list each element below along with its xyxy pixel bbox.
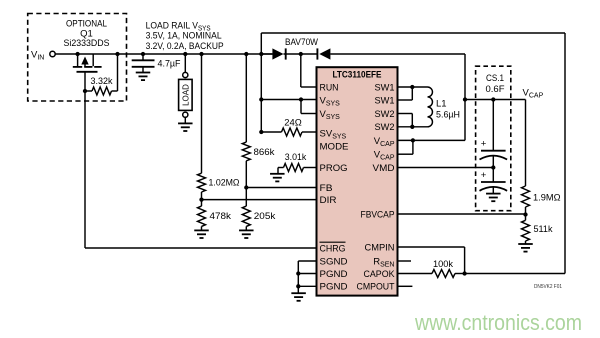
label DN5VK2 F01 [534,284,562,290]
wire CMPOUT stub [398,285,413,287]
pin SW1-2 [375,95,395,106]
pin PGND-2 [320,282,348,293]
node Q1 source junction [75,52,79,56]
label Si2333DDS [64,38,110,49]
pin VMD [373,163,395,174]
wire VSYS to D1 anode [261,53,272,55]
svg-text:866k: 866k [254,147,275,158]
label 3.2V 0.2A BACKUP [146,41,224,52]
svg-text:+: + [481,139,487,150]
capacitor CS.1 upper cell [480,100,508,168]
pin PGND-1 [320,269,348,280]
svg-text:CS.1: CS.1 [486,73,504,84]
capacitor C 4.7uF [132,54,181,73]
svg-text:BAV70W: BAV70W [285,37,318,48]
wire VCAP-2 bridge [398,140,413,154]
wire VSYS down to 1.02M [201,54,203,173]
svg-text:5.6µH: 5.6µH [436,110,460,121]
node SW1 junction [410,85,414,89]
ground (CS.1) [486,194,501,202]
wire VSYS column down [260,54,262,132]
node PGND1 junction [296,271,300,275]
node FBVCAP junction [523,212,527,216]
ground (LOAD) [178,123,193,131]
pin MODE [320,141,349,152]
svg-text:VMD: VMD [373,163,395,174]
svg-text:3.2V, 0.2A, BACKUP: 3.2V, 0.2A, BACKUP [146,41,224,52]
ground (4.7uF) [136,73,151,81]
resistor R 866k [242,142,274,161]
node 866k column junction [244,52,248,56]
wire right-side drop [564,33,566,274]
svg-text:PGND: PGND [320,269,348,280]
pin CMPOUT [357,282,395,293]
ground (PGND/SGND) [291,293,306,301]
svg-text:0.6F: 0.6F [486,84,505,95]
pin VCAP-1 [374,136,395,148]
svg-text:FBVCAP: FBVCAP [361,209,395,220]
svg-text:CMPIN: CMPIN [365,242,395,253]
svg-text:100k: 100k [433,259,453,270]
svg-text:205k: 205k [254,211,276,222]
pin FBVCAP [361,209,395,220]
watermark www.cntronics.com [414,310,582,335]
wire RUN drop [301,54,317,87]
label 0.6F [486,84,505,95]
inductor L1 5.6uH [428,87,461,127]
node VIN input terminal [31,50,55,62]
wire SW1-2 bridge [398,87,413,100]
pin SW2-1 [375,109,395,120]
node 1.02M column junction [199,52,203,56]
svg-text:1.9MΩ: 1.9MΩ [533,193,561,204]
wire SW2-1 bridge [398,114,413,127]
wire riser to top rail [260,33,262,54]
pin VSYS-2 [320,109,341,121]
wire DIR line [202,199,317,201]
svg-text:+: + [481,170,487,181]
wire PGND bracket [297,261,299,286]
wire top rail [261,32,565,34]
svg-text:Si2333DDS: Si2333DDS [64,38,110,49]
svg-text:24Ω: 24Ω [284,118,302,129]
transistor Q1 Si2333DDS (P-MOSFET) [73,54,102,91]
svg-text:SGND: SGND [320,256,348,267]
svg-text:www.cntronics.com: www.cntronics.com [414,310,582,335]
resistor R 100k [398,259,465,278]
node SW2 junction [410,125,414,129]
wire VCAP down to 1.9M [525,100,527,187]
wire VSYS rail [118,53,273,55]
label 3.5V 1A NOMINAL [146,31,222,42]
svg-text:MODE: MODE [320,141,349,152]
pin SW2-2 [375,122,395,133]
wire Q1 gate to CHRG [85,91,317,248]
wire 100k node to right drop [465,273,565,275]
wire PGND2 [298,285,316,287]
resistor R 3.01k [278,152,317,172]
label LTC3110EFE [333,70,382,81]
diode D1 (BAV70W left) [272,48,285,59]
wire to VSYS pin 1 [261,99,316,101]
pin CMPIN [365,242,395,253]
svg-text:PROG: PROG [320,163,348,174]
wire PGND1 [298,273,316,275]
node VSYS/rail junction [259,52,263,56]
pin SVSYS [320,128,347,140]
resistor R 1.9Mohm [522,186,561,207]
resistor R 24ohm [261,118,316,136]
ground (511k) [518,244,533,252]
resistor R 205k [242,206,275,226]
pin CHRG [320,242,346,254]
svg-text:SW2: SW2 [375,109,395,120]
node Q1 gate junction [83,89,87,93]
node VSYS pins bridge [299,97,303,101]
svg-text:CAPOK: CAPOK [364,269,396,280]
svg-text:SW1: SW1 [375,82,395,93]
wire 1.9M to FBVCAP node [525,207,527,215]
node PGND2 junction [296,284,300,288]
wire VSYS down to 866k [245,54,247,142]
wire FB line [246,187,316,189]
pin CAPOK [364,269,396,280]
node 24ohm tap [259,130,263,134]
node Q1 drain junction [115,52,119,56]
svg-text:DIR: DIR [320,195,337,206]
resistor R 478k [198,206,232,226]
label VCAP [523,88,544,100]
svg-text:3.32k: 3.32k [91,76,113,87]
wire RSEN stub [398,260,412,262]
capacitor CS.1 lower cell [480,168,508,194]
pin RUN [320,82,339,93]
wire 3.01k to ground [277,168,279,174]
load block LOAD [179,54,193,123]
wire 511k to ground [525,241,527,244]
pin RSEN [373,256,394,268]
label LOAD RAIL VSYS [146,20,211,32]
ground (PROG) [270,174,285,182]
resistor R 1.02Mohm [198,173,240,192]
svg-text:LTC3110EFE: LTC3110EFE [333,70,382,81]
pin PROG [320,163,348,174]
ground (478k) [194,230,209,238]
wire 205k to ground [245,226,247,230]
ground (205k) [239,230,254,238]
wire PGND to ground [297,286,299,293]
svg-text:CHRG: CHRG [320,243,346,254]
pin VSYS-1 [320,95,341,107]
optional box (dashed) around Q1 [28,14,127,102]
wire VIN to Q1 source/drain rail [55,53,117,55]
wire VCAP-1 to column [398,139,466,141]
wire CMPIN [398,247,465,274]
wire FBVCAP line [398,213,526,215]
pin FB [320,183,333,194]
wire 1.02M to DIR node [201,192,203,200]
svg-text:1.02MΩ: 1.02MΩ [209,178,240,189]
wire 478k to ground [201,226,203,230]
wire D2 anode to VCAP column [330,53,465,55]
node FB junction [244,185,248,189]
svg-text:CMPOUT: CMPOUT [357,282,395,293]
svg-text:FB: FB [320,183,333,194]
capacitor CS.1 box (dashed) [476,66,511,211]
svg-text:511k: 511k [534,224,553,235]
node RUN tap (diode center) [299,52,303,56]
svg-text:SW2: SW2 [375,122,395,133]
wire VMD to supercap mid [398,167,494,169]
node VCAP node [463,97,467,101]
svg-text:SW1: SW1 [375,95,395,106]
wire VSYS pins bridge [301,100,317,114]
node supercap tap [491,97,495,101]
svg-text:478k: 478k [210,211,232,222]
wire VCAP node line [465,99,526,101]
node LOAD junction [183,52,187,56]
diode D2 (BAV70W right) [317,48,330,59]
svg-text:RUN: RUN [320,82,339,93]
pin DIR [320,195,337,206]
pin SW1-1 [375,82,395,93]
node VCAP pins junction [411,138,415,142]
pin SGND [320,256,348,267]
svg-text:3.01k: 3.01k [285,152,307,163]
label Q1 [80,29,93,40]
resistor R 511k [522,215,553,242]
node VSYS pin tap [259,97,263,101]
wire common cathode [284,53,318,55]
svg-text:LOAD: LOAD [181,84,190,106]
wire SGND [298,260,316,262]
label CS.1 [486,73,504,84]
wire SW2-2 to L1 bottom [398,126,428,128]
op-amp U1 LTC3110EFE body [317,67,398,295]
wire DIR node to 478k [201,200,203,207]
pin VCAP-2 [374,150,395,162]
wire 866k to FB node [245,161,247,188]
node 100k junction [462,271,466,275]
svg-text:PGND: PGND [320,282,348,293]
wire VCAP column up [464,54,466,140]
resistor R 3.32k (gate-drain) [85,54,118,95]
label OPTIONAL [66,19,107,30]
wire SW1-1 to L1 top [398,86,428,88]
node DIR divider junction [199,197,203,201]
node supercap midpoint [491,165,495,169]
node 4.7uF junction [141,52,145,56]
label BAV70W [285,37,318,48]
svg-text:L1: L1 [436,99,447,110]
svg-text:DN5VK2 F01: DN5VK2 F01 [534,284,562,290]
svg-text:4.7µF: 4.7µF [158,58,181,69]
wire FB node to 205k [245,188,247,207]
